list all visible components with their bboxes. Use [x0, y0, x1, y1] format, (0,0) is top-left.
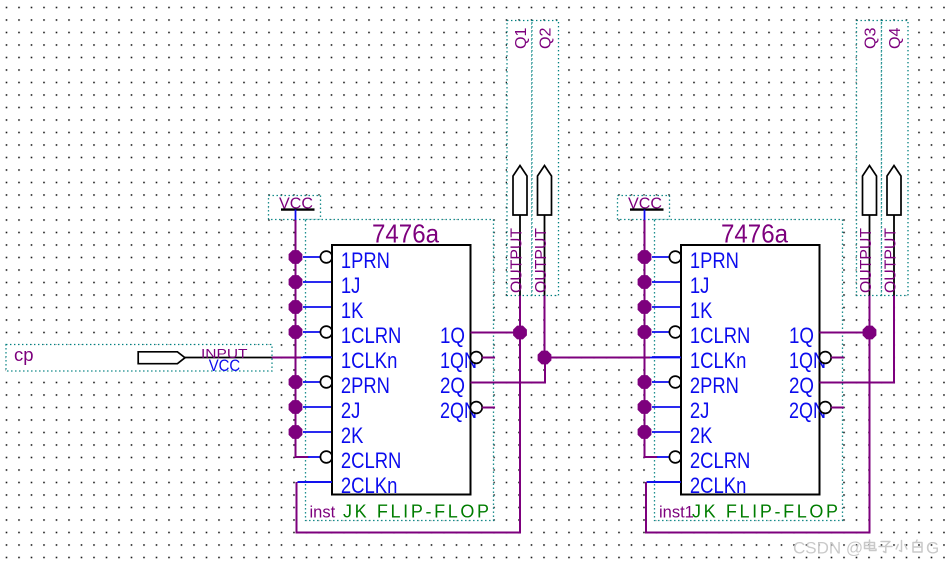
svg-text:2J: 2J [341, 398, 361, 423]
inversion bubble left U1 y457 [320, 451, 332, 463]
wire U1 bottom feedback [296, 532, 522, 534]
selection box IC U2 [655, 220, 843, 521]
inversion bubble left U2 y457 [669, 451, 681, 463]
VCC power symbol bar 2 [630, 208, 664, 210]
svg-text:cp: cp [14, 344, 34, 365]
svg-text:OUTPUT: OUTPUT [509, 227, 526, 293]
svg-text:1K: 1K [690, 298, 713, 323]
input pin lead [185, 357, 272, 359]
svg-text:1J: 1J [341, 273, 361, 298]
pin lead 1K U1 [303, 306, 332, 308]
svg-text:2K: 2K [690, 423, 713, 448]
svg-text:1J: 1J [690, 273, 710, 298]
svg-text:2CLKn: 2CLKn [690, 473, 747, 498]
junction VCC rail 1 y257 [289, 250, 303, 264]
output pin lead Q4 [893, 215, 895, 296]
watermark glyph zi [879, 542, 892, 553]
watermark glyph bai [913, 540, 922, 552]
svg-text:Q4: Q4 [887, 27, 904, 49]
pin lead 2CLKn U1 [298, 481, 333, 483]
pin lead 2CLKn U1 [298, 481, 333, 483]
selection box IC U1 [306, 220, 494, 521]
svg-text:1PRN: 1PRN [341, 248, 390, 273]
junction VCC rail 2 y257 [638, 250, 652, 264]
pin lead 1CLRN U1 [303, 331, 321, 333]
svg-text:2PRN: 2PRN [341, 373, 390, 398]
output pin symbol Q3 [863, 166, 877, 216]
wire cp to 1CLKn [272, 357, 301, 359]
wire 2Q U1 to node B [471, 382, 547, 384]
svg-text:2CLRN: 2CLRN [341, 448, 402, 473]
wire node A down [519, 333, 521, 533]
watermark glyph dian [865, 540, 877, 551]
stub QN U1 y357 [482, 357, 495, 359]
svg-text:inst1: inst1 [659, 504, 694, 522]
wire 1Q U1 to node A [471, 332, 521, 334]
pin lead 2K U2 [652, 431, 681, 433]
pin lead 2CLKn U2 [647, 481, 682, 483]
pin lead 1CLRN U2 [652, 331, 670, 333]
svg-text:JK FLIP-FLOP: JK FLIP-FLOP [692, 502, 838, 522]
svg-text:OUTPUT: OUTPUT [533, 227, 550, 293]
pin lead 2CLKn U2 [647, 481, 681, 483]
selection box output pin Q2 [532, 21, 559, 296]
inversion bubble right U2 y357 [819, 352, 831, 364]
svg-text:1Q: 1Q [440, 323, 465, 348]
junction VCC rail 2 y282 [638, 275, 652, 289]
inversion bubble left U1 y382 [320, 376, 332, 388]
stub QN U1 y407 [482, 407, 495, 409]
IC U1 7476a body [332, 245, 471, 495]
selection box output pin Q4 [882, 21, 909, 296]
selection box VCC symbol 2 [618, 196, 670, 220]
inversion bubble left U1 y332 [320, 326, 332, 338]
svg-text:2CLKn: 2CLKn [341, 473, 398, 498]
pin lead 1J U2 [652, 281, 681, 283]
svg-text:Q3: Q3 [863, 27, 880, 49]
output pin lead Q2 [544, 215, 546, 296]
pin lead 2J U1 [303, 406, 332, 408]
stub QN U2 y357 [831, 357, 844, 359]
wire VCC rail 1 [295, 220, 297, 457]
junction node B (2Q/Q2) [538, 351, 552, 365]
output pin lead Q1 [519, 215, 521, 296]
input pin symbol cp [138, 352, 185, 364]
pin lead 2J U2 [652, 406, 681, 408]
wire 2Q U1 up [544, 358, 546, 384]
pin lead 2PRN U1 [303, 381, 321, 383]
selection box output pin Q3 [857, 21, 882, 296]
svg-text:Q2: Q2 [538, 27, 555, 49]
wire Q4 riser [893, 296, 895, 384]
pin lead 1CLKn U1 [303, 356, 332, 358]
output pin symbol Q4 [887, 166, 901, 216]
svg-text:CSDN @: CSDN @ [793, 539, 863, 558]
output pin symbol Q1 [513, 166, 527, 216]
svg-text:inst: inst [310, 504, 336, 522]
pin lead 2CLRN U1 [308, 456, 321, 458]
svg-text:OUTPUT: OUTPUT [883, 227, 900, 293]
svg-text:VCC: VCC [209, 357, 241, 375]
wire 1Q U2 to node C [820, 332, 870, 334]
VCC symbol stub 1 [295, 210, 297, 222]
svg-text:2PRN: 2PRN [690, 373, 739, 398]
junction VCC rail 1 y407 [289, 400, 303, 414]
svg-text:JK FLIP-FLOP: JK FLIP-FLOP [343, 502, 489, 522]
wire Q2 riser [544, 296, 546, 358]
wire U2 feedback riser [645, 482, 647, 534]
pin lead 2CLRN U2 [657, 456, 670, 458]
svg-text:1Q: 1Q [789, 323, 814, 348]
junction VCC rail 1 y432 [289, 425, 303, 439]
inversion bubble left U2 y382 [669, 376, 681, 388]
pin lead 1PRN U1 [303, 256, 321, 258]
wire node B to 1CLKn U2 [545, 357, 651, 359]
junction VCC rail 2 y432 [638, 425, 652, 439]
selection box output pin Q1 [507, 21, 532, 296]
svg-text:1CLRN: 1CLRN [690, 323, 751, 348]
wire U2 bottom feedback [646, 532, 871, 534]
pin lead 1CLKn U1 [301, 357, 332, 359]
pin lead 1CLKn U2 [652, 356, 681, 358]
svg-text:G: G [926, 539, 939, 558]
selection box VCC symbol 1 [269, 196, 321, 220]
junction VCC rail 1 y382 [289, 375, 303, 389]
pin lead 2PRN U2 [652, 381, 670, 383]
svg-text:OUTPUT: OUTPUT [858, 227, 875, 293]
wire VCC rail 2 [644, 220, 646, 457]
wire VCC rail to 2CLRN 2 [644, 456, 658, 458]
svg-text:2J: 2J [690, 398, 710, 423]
pin lead 2K U1 [303, 431, 332, 433]
svg-text:2Q: 2Q [789, 373, 814, 398]
junction VCC rail 1 y307 [289, 300, 303, 314]
svg-text:1CLRN: 1CLRN [341, 323, 402, 348]
selection box input pin cp [6, 345, 272, 372]
pin lead 1J U1 [303, 281, 332, 283]
VCC symbol stub 2 [644, 210, 646, 222]
svg-text:1CLKn: 1CLKn [690, 348, 747, 373]
inversion bubble right U1 y357 [470, 352, 482, 364]
output pin symbol Q2 [538, 166, 552, 216]
junction node A (1Q/Q1) [513, 326, 527, 340]
wire U1 feedback riser [296, 482, 298, 534]
junction VCC rail 1 y332 [289, 325, 303, 339]
wire VCC rail to 2CLRN 1 [295, 456, 309, 458]
inversion bubble left U1 y257 [320, 251, 332, 263]
inversion bubble left U2 y332 [669, 326, 681, 338]
svg-text:7476a: 7476a [372, 219, 439, 249]
pin lead 1K U2 [652, 306, 681, 308]
junction VCC rail 2 y332 [638, 325, 652, 339]
junction node C (1Q/Q3) [863, 326, 877, 340]
junction VCC rail 2 y382 [638, 375, 652, 389]
junction VCC rail 2 y307 [638, 300, 652, 314]
watermark glyph xiao [896, 541, 907, 552]
pin lead 1PRN U2 [652, 256, 670, 258]
VCC power symbol bar 1 [281, 208, 315, 210]
inversion bubble right U2 y407 [819, 402, 831, 414]
svg-text:2CLRN: 2CLRN [690, 448, 751, 473]
inversion bubble left U2 y257 [669, 251, 681, 263]
wire 2Q U2 to Q4 [820, 382, 896, 384]
stub QN U2 y407 [831, 407, 844, 409]
output pin lead Q3 [869, 215, 871, 296]
IC U2 7476a body [681, 245, 820, 495]
svg-text:2K: 2K [341, 423, 364, 448]
pin lead 1CLKn U2 [650, 357, 681, 359]
inversion bubble right U1 y407 [470, 402, 482, 414]
junction VCC rail 2 y407 [638, 400, 652, 414]
junction VCC rail 1 y282 [289, 275, 303, 289]
wire Q3 riser [869, 296, 871, 333]
svg-text:Q1: Q1 [513, 27, 530, 49]
svg-text:2Q: 2Q [440, 373, 465, 398]
svg-text:7476a: 7476a [721, 219, 788, 249]
wire Q1 riser [519, 296, 521, 333]
wire node C down [869, 333, 871, 533]
svg-text:1CLKn: 1CLKn [341, 348, 398, 373]
svg-text:1K: 1K [341, 298, 364, 323]
svg-text:1PRN: 1PRN [690, 248, 739, 273]
